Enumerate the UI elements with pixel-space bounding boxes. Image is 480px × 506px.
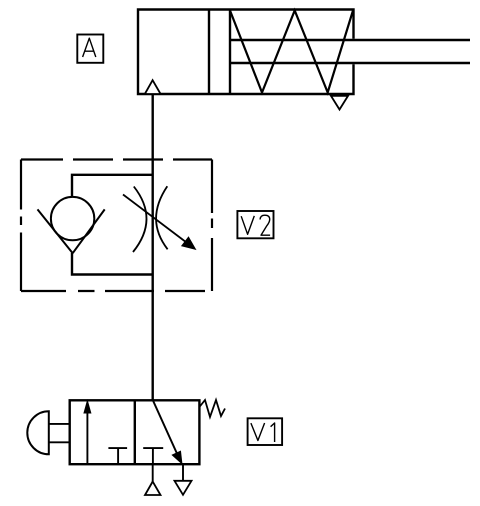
V1 exhaust triangle	[175, 481, 192, 495]
check valve seat	[38, 209, 105, 253]
V1 exhaust stem	[182, 464, 184, 481]
V1 return spring	[199, 400, 225, 417]
V1 pushbutton stem	[49, 424, 70, 442]
throttle left arc	[133, 187, 147, 253]
V2 inner box	[72, 175, 153, 275]
label A box	[77, 35, 103, 63]
label V1 text	[251, 423, 265, 441]
V1 right position flow diagonal	[153, 400, 178, 456]
cylinder vent triangle	[331, 96, 348, 110]
V1 left position flow arrow	[86, 411, 88, 464]
wire main vertical line	[151, 94, 153, 400]
V1 right blocked port	[143, 448, 163, 464]
V1 left blocked port	[108, 448, 127, 464]
flow control V2 dashed enclosure right	[211, 160, 213, 292]
flow control V2 dashed enclosure bottom	[21, 290, 205, 292]
check valve ball	[51, 197, 94, 240]
piston	[209, 10, 230, 95]
valve V1 divider	[134, 400, 136, 464]
flow control V2 dashed enclosure top	[21, 158, 212, 160]
return spring	[230, 11, 353, 93]
label A text	[83, 38, 96, 57]
throttle right arc	[156, 186, 168, 249]
V1 supply stem	[152, 464, 154, 481]
V1 pushbutton	[27, 411, 49, 454]
cylinder A body	[138, 10, 354, 95]
flow control V2 dashed enclosure left	[20, 160, 22, 292]
cylinder port arrow	[145, 80, 161, 94]
label V2 box	[237, 211, 273, 238]
V1 supply triangle	[145, 482, 161, 496]
label V1 box	[248, 418, 283, 445]
label V2 text	[241, 216, 254, 234]
throttle adjust arrowhead	[182, 237, 196, 249]
valve V1 body	[70, 400, 200, 464]
piston rod	[230, 40, 470, 63]
throttle adjust arrow shaft	[123, 195, 188, 244]
